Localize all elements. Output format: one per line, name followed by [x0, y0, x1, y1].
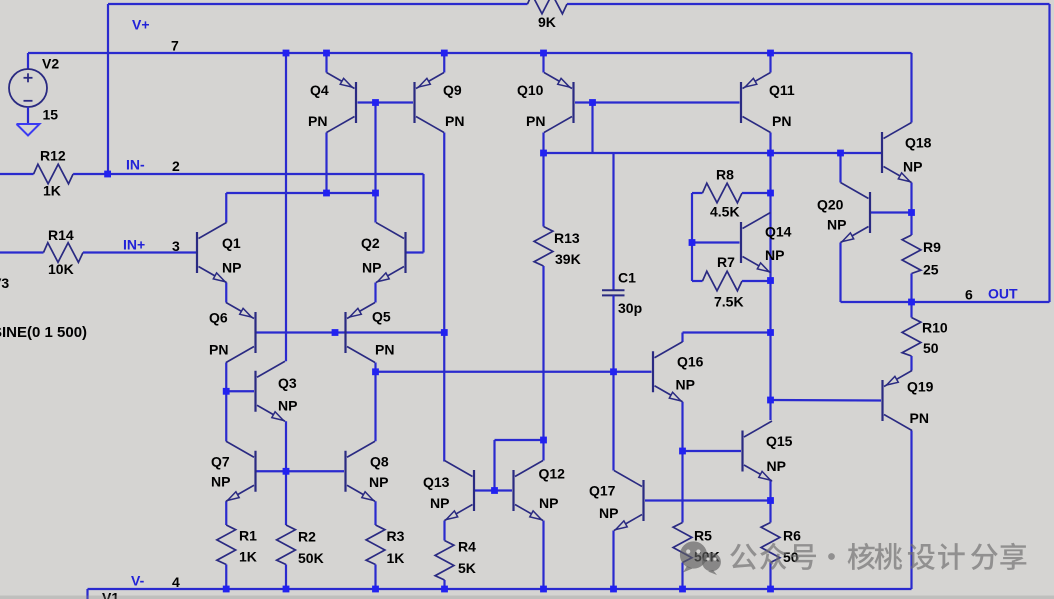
- svg-text:R6: R6: [783, 528, 801, 544]
- svg-text:39K: 39K: [555, 251, 581, 267]
- svg-text:50K: 50K: [298, 550, 324, 566]
- svg-text:15: 15: [43, 107, 59, 123]
- svg-text:PN: PN: [445, 113, 464, 129]
- svg-text:PN: PN: [910, 410, 929, 426]
- svg-text:NP: NP: [767, 458, 786, 474]
- svg-text:50: 50: [923, 340, 939, 356]
- svg-text:1K: 1K: [387, 550, 405, 566]
- svg-text:NP: NP: [765, 247, 784, 263]
- svg-text:4.5K: 4.5K: [710, 204, 740, 220]
- svg-text:V3: V3: [0, 275, 9, 291]
- svg-text:NP: NP: [599, 505, 618, 521]
- svg-text:Q9: Q9: [443, 82, 462, 98]
- svg-text:Q14: Q14: [765, 224, 792, 240]
- svg-text:NP: NP: [676, 377, 695, 393]
- svg-text:R9: R9: [923, 239, 941, 255]
- svg-text:NP: NP: [222, 260, 241, 276]
- svg-text:NP: NP: [539, 495, 558, 511]
- svg-text:Q6: Q6: [209, 310, 228, 326]
- svg-text:R5: R5: [694, 528, 712, 544]
- svg-text:NP: NP: [211, 474, 230, 490]
- svg-text:Q16: Q16: [677, 354, 704, 370]
- svg-text:10K: 10K: [48, 261, 74, 277]
- svg-text:IN+: IN+: [123, 237, 145, 253]
- svg-text:30p: 30p: [618, 300, 642, 316]
- svg-text:PN: PN: [375, 342, 394, 358]
- svg-text:R10: R10: [922, 320, 948, 336]
- svg-text:C1: C1: [618, 270, 636, 286]
- svg-text:R1: R1: [239, 528, 257, 544]
- svg-text:5K: 5K: [458, 560, 476, 576]
- svg-text:IN-: IN-: [126, 157, 145, 173]
- svg-text:V2: V2: [42, 56, 59, 72]
- svg-text:2: 2: [172, 158, 180, 174]
- svg-text:Q12: Q12: [539, 466, 566, 482]
- svg-text:NP: NP: [278, 398, 297, 414]
- svg-text:3: 3: [172, 238, 180, 254]
- svg-text:NP: NP: [827, 217, 846, 233]
- svg-text:PN: PN: [209, 342, 228, 358]
- svg-text:NP: NP: [369, 474, 388, 490]
- svg-text:V-: V-: [131, 573, 145, 589]
- svg-text:Q19: Q19: [907, 379, 934, 395]
- svg-text:R13: R13: [554, 230, 580, 246]
- svg-text:Q7: Q7: [211, 454, 230, 470]
- svg-text:R12: R12: [40, 148, 66, 164]
- svg-text:R8: R8: [716, 167, 734, 183]
- svg-text:V+: V+: [132, 17, 150, 33]
- svg-text:R7: R7: [717, 254, 735, 270]
- svg-text:25: 25: [923, 262, 939, 278]
- svg-text:R3: R3: [387, 528, 405, 544]
- svg-text:NP: NP: [430, 495, 449, 511]
- svg-text:OUT: OUT: [988, 286, 1018, 302]
- svg-text:1K: 1K: [43, 183, 61, 199]
- svg-text:7: 7: [171, 38, 179, 54]
- svg-text:1K: 1K: [239, 549, 257, 565]
- svg-text:PN: PN: [772, 113, 791, 129]
- svg-text:4: 4: [172, 574, 180, 590]
- svg-text:Q3: Q3: [278, 375, 297, 391]
- svg-text:Q17: Q17: [589, 483, 616, 499]
- svg-text:7.5K: 7.5K: [714, 294, 744, 310]
- svg-text:R4: R4: [458, 539, 476, 555]
- svg-text:Q4: Q4: [310, 82, 329, 98]
- svg-text:6: 6: [965, 287, 973, 303]
- svg-text:Q5: Q5: [372, 309, 391, 325]
- svg-text:Q10: Q10: [517, 82, 544, 98]
- svg-text:Q18: Q18: [905, 135, 932, 151]
- svg-text:Q1: Q1: [222, 235, 241, 251]
- svg-text:PN: PN: [526, 113, 545, 129]
- svg-text:PN: PN: [308, 113, 327, 129]
- svg-text:R2: R2: [298, 529, 316, 545]
- svg-text:NP: NP: [903, 159, 922, 175]
- svg-text:NP: NP: [362, 260, 381, 276]
- svg-text:Q11: Q11: [769, 82, 795, 98]
- svg-text:Q2: Q2: [361, 235, 380, 251]
- svg-text:9K: 9K: [538, 14, 556, 30]
- svg-text:Q20: Q20: [817, 197, 844, 213]
- svg-text:R14: R14: [48, 227, 74, 243]
- svg-text:Q13: Q13: [423, 474, 450, 490]
- svg-text:Q15: Q15: [766, 433, 793, 449]
- svg-text:Q8: Q8: [370, 454, 389, 470]
- svg-text:SINE(0 1 500): SINE(0 1 500): [0, 324, 87, 341]
